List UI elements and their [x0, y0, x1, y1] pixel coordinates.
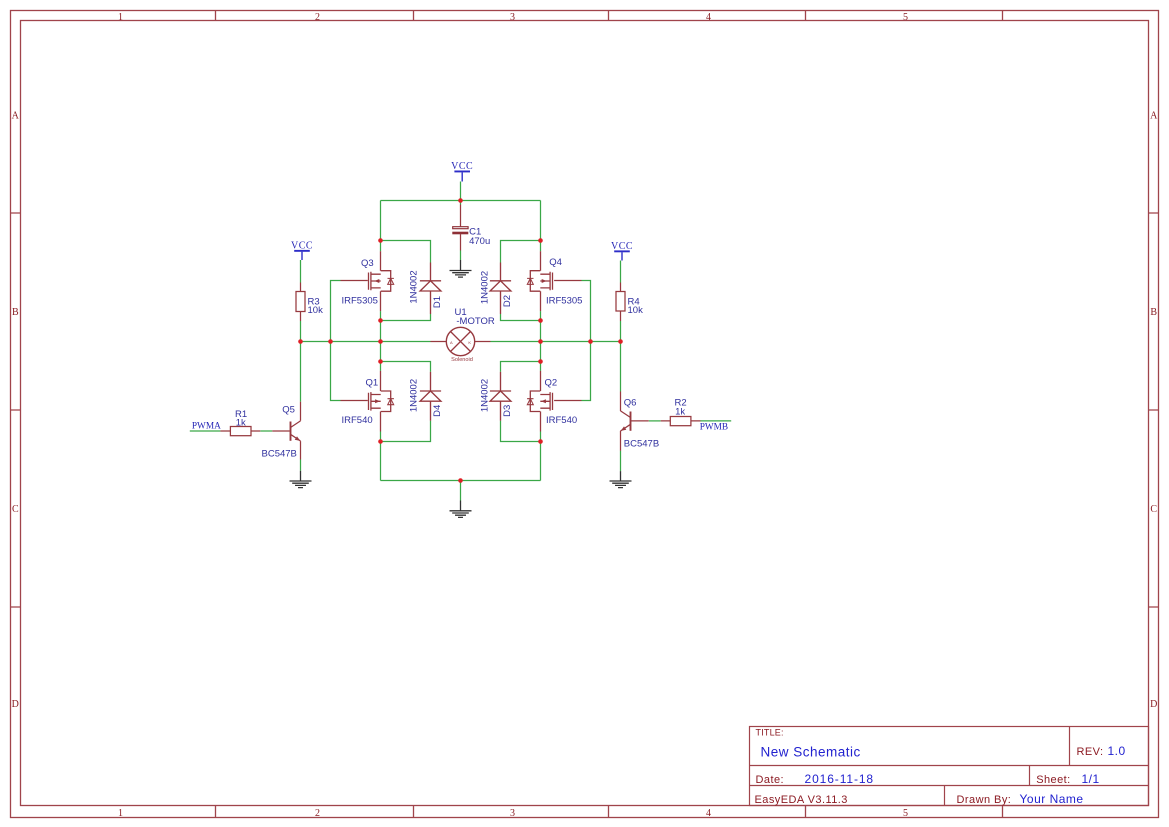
node D4 top junction: [378, 359, 383, 364]
wire D4 top branch: [381, 362, 431, 372]
svg-text:10k: 10k: [308, 305, 324, 316]
svg-text:1k: 1k: [675, 407, 685, 418]
diode D3: [479, 372, 513, 421]
svg-text:PWMB: PWMB: [700, 422, 728, 432]
WIRES (green): [190, 182, 731, 501]
resistor R1: [220, 409, 260, 436]
svg-text:Sheet:: Sheet:: [1036, 774, 1071, 786]
wire motor left row: [301, 341, 431, 343]
svg-text:K: K: [468, 340, 471, 345]
svg-text:1k: 1k: [236, 418, 246, 429]
wire right rail lower: [540, 432, 542, 481]
svg-text:1N4002: 1N4002: [479, 379, 490, 412]
svg-text:B: B: [12, 307, 19, 318]
node right gate column: [588, 339, 593, 344]
wire bottom rail to ground: [460, 481, 462, 501]
svg-text:4: 4: [706, 808, 711, 819]
node R3/Q5 collector: [298, 339, 303, 344]
wire right rail mid: [540, 311, 542, 371]
wire VCC left stem to R3: [300, 260, 302, 283]
wire Q6 emitter to ground: [620, 451, 622, 471]
svg-text:470u: 470u: [469, 236, 490, 247]
transistor Q3 (IRF5305): [341, 251, 394, 311]
transistor Q4 (IRF5305): [527, 251, 582, 311]
svg-text:Date:: Date:: [756, 774, 785, 786]
wire R1 to Q5 base: [260, 430, 272, 432]
wire left rail mid: [380, 311, 382, 371]
wire D2 bottom branch: [501, 314, 541, 321]
diode D4: [408, 372, 443, 421]
svg-text:D3: D3: [502, 405, 513, 417]
transistor Q5 (BC547B): [262, 402, 301, 460]
wire C1 lower to ground: [460, 251, 462, 261]
node VCC/top-rail junction: [458, 198, 463, 203]
wire R4 to node: [620, 321, 622, 342]
svg-text:Q6: Q6: [624, 398, 637, 409]
svg-text:10k: 10k: [628, 305, 644, 316]
svg-text:5: 5: [903, 808, 908, 819]
svg-text:D: D: [1150, 699, 1157, 710]
node bottom rail ground: [458, 478, 463, 483]
node D2 bottom junction: [538, 318, 543, 323]
svg-text:Your Name: Your Name: [1020, 792, 1084, 806]
node D4 bottom junction: [378, 439, 383, 444]
svg-text:-MOTOR: -MOTOR: [456, 316, 494, 327]
wire D3 top branch: [501, 362, 541, 372]
wire VCC right stem to R4: [620, 261, 622, 283]
wire left rail lower: [380, 432, 382, 481]
diode D1: [408, 263, 443, 315]
svg-text:VCC: VCC: [291, 241, 313, 252]
svg-text:C: C: [1150, 504, 1157, 515]
resistor R4: [616, 283, 643, 322]
transistor Q2 (IRF540): [527, 371, 581, 432]
svg-text:D4: D4: [432, 405, 443, 417]
node D1 bottom junction: [378, 318, 383, 323]
svg-text:2016-11-18: 2016-11-18: [805, 772, 875, 786]
svg-text:TITLE:: TITLE:: [756, 728, 784, 738]
transistor Q6 (BC547B): [621, 392, 660, 451]
capacitor C1: [452, 205, 490, 251]
node motor right rail: [538, 339, 543, 344]
node D1 top junction: [378, 238, 383, 243]
svg-text:New Schematic: New Schematic: [761, 745, 861, 760]
wire D1 bottom branch: [381, 314, 431, 321]
svg-text:Drawn By:: Drawn By:: [957, 794, 1012, 806]
ground bottom rail: [450, 501, 472, 518]
node D3 top junction: [538, 359, 543, 364]
title block: [750, 727, 1149, 806]
svg-text:C: C: [12, 504, 19, 515]
wire node to Q6 collector: [620, 342, 622, 392]
svg-text:1N4002: 1N4002: [479, 271, 490, 304]
wire PWMA to R1: [190, 430, 221, 432]
wire Q5 emitter to ground: [300, 460, 302, 471]
wire D4 bottom branch: [381, 421, 431, 442]
svg-text:VCC: VCC: [451, 161, 473, 172]
svg-text:Q4: Q4: [549, 257, 562, 268]
svg-text:5: 5: [903, 12, 908, 23]
ground under C1: [450, 260, 472, 277]
wire D1 top branch: [381, 241, 431, 263]
svg-text:1: 1: [118, 12, 123, 23]
wire VCC top rail: [381, 200, 541, 202]
wire VCC stem to top rail: [460, 182, 462, 205]
svg-text:REV:: REV:: [1077, 746, 1104, 758]
wire left rail upper: [380, 201, 382, 252]
node R4/Q6 collector: [618, 339, 623, 344]
power VCC top: [451, 161, 473, 181]
svg-text:IRF540: IRF540: [342, 415, 373, 426]
ground under Q5: [290, 471, 312, 488]
svg-text:2: 2: [315, 808, 320, 819]
svg-text:IRF540: IRF540: [546, 415, 577, 426]
wire D3 bottom branch: [501, 421, 541, 442]
JUNCTION DOTS: [298, 198, 623, 483]
svg-text:A: A: [1150, 111, 1158, 122]
svg-text:B: B: [1150, 307, 1157, 318]
svg-text:IRF5305: IRF5305: [342, 296, 378, 307]
wire D2 top branch: [501, 241, 541, 263]
svg-text:1N4002: 1N4002: [408, 270, 419, 303]
node D3 bottom junction: [538, 439, 543, 444]
node motor left rail: [378, 339, 383, 344]
wire gate column left: [331, 281, 341, 401]
wire node to Q5 collector: [300, 342, 302, 402]
power VCC right: [611, 241, 633, 261]
resistor R3: [296, 283, 323, 322]
svg-text:D: D: [12, 699, 19, 710]
svg-text:1N4002: 1N4002: [408, 379, 419, 412]
svg-text:A: A: [450, 340, 453, 345]
motor U1 (Solenoid): [431, 307, 495, 363]
node D2 top junction: [538, 238, 543, 243]
wire bottom rail: [381, 480, 541, 482]
svg-text:A: A: [12, 111, 20, 122]
wire motor right row: [491, 341, 621, 343]
svg-text:Q3: Q3: [361, 258, 374, 269]
svg-text:3: 3: [510, 808, 515, 819]
svg-text:1: 1: [118, 808, 123, 819]
diode D2: [479, 263, 513, 315]
wire R2 to PWMB: [701, 420, 732, 422]
transistor Q1 (IRF540): [341, 371, 394, 432]
svg-text:Q1: Q1: [366, 378, 379, 389]
svg-text:IRF5305: IRF5305: [546, 296, 582, 307]
svg-text:Solenoid: Solenoid: [451, 357, 473, 363]
svg-text:D2: D2: [502, 295, 513, 307]
svg-text:BC547B: BC547B: [624, 439, 659, 450]
node left gate column: [328, 339, 333, 344]
svg-text:4: 4: [706, 12, 711, 23]
wire right rail upper: [540, 201, 542, 252]
svg-text:1.0: 1.0: [1108, 744, 1126, 758]
ground under Q6: [610, 471, 632, 488]
power VCC left: [291, 241, 313, 261]
svg-text:PWMA: PWMA: [192, 422, 221, 432]
svg-text:VCC: VCC: [611, 241, 633, 252]
svg-text:D1: D1: [432, 296, 443, 308]
svg-text:Q5: Q5: [282, 405, 295, 416]
svg-text:Q2: Q2: [545, 378, 558, 389]
svg-text:2: 2: [315, 12, 320, 23]
wire gate column right: [582, 281, 591, 401]
svg-text:1/1: 1/1: [1082, 772, 1100, 786]
svg-text:BC547B: BC547B: [262, 448, 297, 459]
resistor R2: [661, 398, 701, 426]
wire Q6 base to R2: [649, 420, 661, 422]
wire R3 to node: [300, 321, 302, 342]
svg-text:3: 3: [510, 12, 515, 23]
svg-text:EasyEDA V3.11.3: EasyEDA V3.11.3: [755, 794, 848, 806]
